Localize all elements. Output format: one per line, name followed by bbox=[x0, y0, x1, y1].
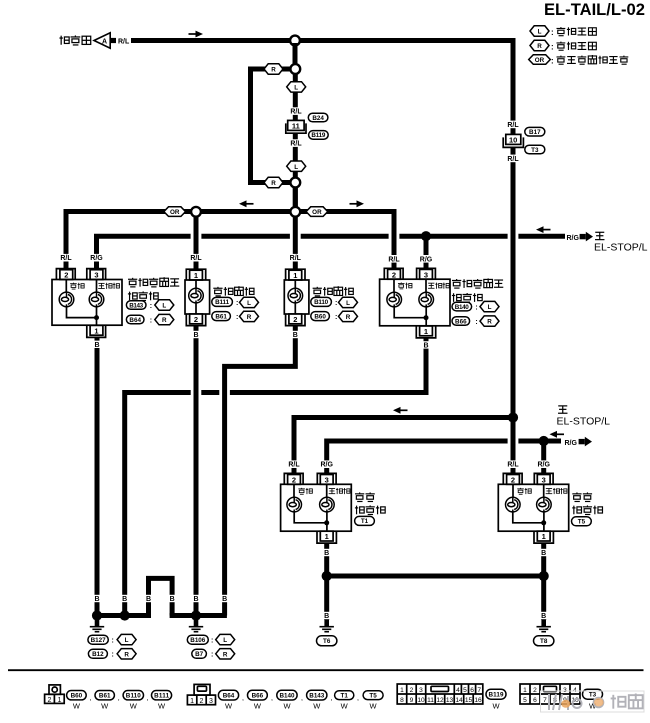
wire comp2 ground lead B bbox=[194, 326, 199, 616]
right trunk continuation below connector 10 bbox=[511, 147, 516, 417]
svg-text:B: B bbox=[193, 332, 198, 339]
svg-text:L: L bbox=[538, 29, 542, 36]
svg-text:B111: B111 bbox=[215, 299, 229, 306]
svg-text::: : bbox=[211, 638, 213, 645]
svg-text:15: 15 bbox=[465, 697, 473, 704]
connector label B110 bbox=[311, 297, 332, 306]
svg-text:T1: T1 bbox=[341, 692, 349, 699]
svg-text:L: L bbox=[346, 300, 350, 307]
connector label B143 bbox=[126, 301, 146, 310]
svg-text:B127: B127 bbox=[91, 637, 106, 644]
svg-text:10: 10 bbox=[509, 135, 517, 144]
label R/L comp4 pin2 riser bbox=[387, 255, 402, 263]
svg-text:2: 2 bbox=[410, 687, 414, 694]
label R/G comp1 pin3 riser bbox=[89, 254, 104, 262]
label R/G comp4 pin3 riser bbox=[419, 255, 434, 263]
stop bulb bbox=[89, 292, 104, 307]
svg-text:B143: B143 bbox=[309, 692, 324, 699]
svg-text:B60: B60 bbox=[71, 692, 83, 699]
internal junction dot bbox=[324, 520, 329, 525]
svg-text:B: B bbox=[541, 550, 546, 557]
connector label T1 bbox=[335, 691, 354, 700]
svg-text:B106: B106 bbox=[190, 637, 205, 644]
wire bus B (R/G stop feed) with gaps at crossings bbox=[97, 236, 566, 268]
label tail lamp bbox=[298, 488, 312, 494]
svg-text:B17: B17 bbox=[529, 129, 541, 136]
svg-text::: : bbox=[112, 652, 114, 659]
label B comp1 wire bbox=[92, 595, 103, 602]
flow arrow left on bus B exit bbox=[536, 226, 551, 233]
svg-text:L: L bbox=[223, 637, 227, 644]
text to EL-STOP/L bbox=[557, 406, 611, 428]
svg-text:2: 2 bbox=[48, 697, 52, 704]
internal wire bulbs to pin1 bbox=[513, 512, 544, 531]
svg-text:R/L: R/L bbox=[290, 141, 302, 148]
stop bulb bbox=[419, 292, 434, 307]
label R/L left rear riser bbox=[287, 460, 302, 468]
svg-text:2: 2 bbox=[64, 271, 68, 280]
internal lead pin3 to stop bulb bbox=[96, 280, 98, 293]
connector label T5 bbox=[363, 691, 383, 700]
svg-text:B111: B111 bbox=[154, 692, 169, 699]
svg-text:T5: T5 bbox=[369, 692, 377, 699]
svg-text:3: 3 bbox=[209, 698, 213, 705]
label stop lamp bbox=[329, 488, 350, 494]
svg-text:2: 2 bbox=[200, 698, 204, 705]
wire right rear ground lead B to T8 bbox=[541, 543, 546, 620]
svg-text:R: R bbox=[487, 319, 492, 326]
option hexagon L bbox=[216, 634, 235, 644]
off-page arrow to EL-STOP/L bbox=[579, 437, 592, 447]
svg-text:R/L: R/L bbox=[190, 255, 202, 262]
label B comp3 wire bbox=[219, 595, 230, 602]
svg-text:3: 3 bbox=[419, 687, 423, 694]
option hexagon L lower bbox=[287, 161, 306, 171]
wire drop from bypass to right license lamp bbox=[293, 187, 298, 269]
internal lead pin2 to tail bulb bbox=[293, 484, 295, 497]
component left luggage lid combination lamp bbox=[52, 269, 122, 338]
connector face icon round 2-pin bbox=[45, 685, 65, 704]
svg-text::: : bbox=[112, 638, 114, 645]
svg-text:,: , bbox=[90, 695, 92, 702]
svg-text::: : bbox=[150, 318, 152, 325]
internal lead bulb to pin2 bbox=[294, 303, 296, 314]
pin 2 bracket bbox=[284, 473, 303, 484]
option hexagon L bbox=[240, 297, 259, 307]
label R/L below connector 10 bbox=[506, 155, 521, 163]
svg-text:B: B bbox=[146, 596, 151, 603]
option hexagon OR left bbox=[164, 207, 186, 217]
internal lead pin3 to stop bulb bbox=[425, 279, 427, 292]
wire drop dot to right luggage lamp pin3 bbox=[424, 236, 429, 272]
svg-text:3: 3 bbox=[325, 475, 329, 484]
node above bypass bbox=[290, 64, 300, 74]
svg-text:B: B bbox=[94, 596, 99, 603]
svg-text:1: 1 bbox=[194, 271, 198, 280]
junction dot R/G to right rear pin3 bbox=[539, 436, 549, 446]
ground bus right segment bbox=[170, 613, 227, 618]
svg-text:B110: B110 bbox=[314, 299, 328, 306]
connector label T3 bbox=[583, 689, 603, 699]
node on top wire bbox=[290, 36, 300, 46]
svg-text:,: , bbox=[357, 695, 359, 702]
internal lead pin3 to stop bulb bbox=[326, 484, 328, 497]
connector label B140 bbox=[277, 690, 297, 700]
svg-text::: : bbox=[551, 57, 554, 66]
internal wire bulbs to pin1 bbox=[67, 307, 97, 326]
component name left rear bbox=[355, 492, 375, 501]
svg-text:R: R bbox=[247, 314, 252, 321]
svg-text:,: , bbox=[271, 695, 273, 702]
connector label B12 bbox=[88, 649, 107, 658]
svg-text:T6: T6 bbox=[323, 638, 331, 645]
svg-text:7: 7 bbox=[543, 697, 547, 704]
svg-text:B12: B12 bbox=[92, 651, 104, 658]
svg-text:B: B bbox=[293, 332, 298, 339]
svg-text:1: 1 bbox=[325, 532, 329, 541]
connector label B61 bbox=[95, 691, 114, 700]
svg-text:9: 9 bbox=[410, 697, 414, 704]
svg-text:1: 1 bbox=[542, 532, 546, 541]
option hexagon OR right bbox=[306, 207, 328, 217]
pin 2 bracket bbox=[286, 314, 305, 326]
svg-text:B7: B7 bbox=[195, 651, 204, 658]
label tail lamp bbox=[398, 282, 412, 288]
component name right rear bbox=[572, 492, 592, 501]
svg-text:B: B bbox=[423, 343, 428, 350]
internal lead to bulb bbox=[294, 280, 296, 288]
pin 1 box bbox=[537, 531, 550, 541]
option hexagon R bbox=[480, 316, 499, 326]
wire dot to right rear lamp pin3 bbox=[541, 441, 546, 475]
svg-text:W: W bbox=[254, 702, 262, 711]
svg-text:R/G: R/G bbox=[90, 255, 103, 262]
pin 1 bracket bbox=[416, 326, 435, 338]
svg-text:3: 3 bbox=[542, 475, 546, 484]
node license lamp left bbox=[191, 207, 201, 217]
svg-text:T1: T1 bbox=[361, 518, 369, 525]
label B above T6 ground bbox=[321, 612, 332, 619]
svg-text:13: 13 bbox=[446, 697, 454, 704]
pin 1 bracket bbox=[317, 531, 336, 543]
svg-text:R/G: R/G bbox=[567, 235, 580, 242]
trunk continues to right rear lamp pin2 bbox=[511, 418, 516, 476]
svg-text:EL-TAIL/L-02: EL-TAIL/L-02 bbox=[544, 1, 645, 19]
svg-text:L: L bbox=[294, 164, 298, 171]
connector label T1 bbox=[355, 516, 375, 525]
option hexagon R upper bbox=[264, 64, 283, 74]
ground T8 bbox=[537, 620, 551, 632]
svg-text::: : bbox=[475, 305, 477, 312]
svg-text:3: 3 bbox=[563, 687, 567, 694]
wire comp1 ground lead B bbox=[95, 337, 100, 615]
svg-text:1: 1 bbox=[190, 698, 194, 705]
option hexagon L bbox=[339, 297, 358, 307]
svg-text:B64: B64 bbox=[129, 317, 141, 324]
pin 2 bracket bbox=[56, 269, 75, 280]
svg-text:W: W bbox=[73, 701, 81, 710]
label R/L above connector 11 bbox=[289, 107, 304, 115]
junction dot comp2 ground bbox=[191, 610, 201, 620]
svg-text:W: W bbox=[492, 702, 500, 711]
pin 3 bracket bbox=[417, 268, 436, 279]
svg-text:,: , bbox=[331, 695, 333, 702]
svg-text:B140: B140 bbox=[455, 304, 469, 311]
svg-text:R/L: R/L bbox=[507, 462, 519, 469]
connector label B106 bbox=[187, 635, 208, 644]
wire R/G rear stop feed bbox=[327, 441, 561, 475]
wire main R/L feed: top horizontal + right trunk to connector 10 bbox=[131, 41, 513, 135]
wire R bypass branch (left loop) bbox=[251, 69, 292, 183]
label B bridge left leg bbox=[143, 595, 154, 602]
svg-text:16: 16 bbox=[474, 697, 482, 704]
connector label B61 bbox=[212, 312, 231, 321]
option hexagon L bbox=[480, 301, 499, 311]
svg-text:6: 6 bbox=[470, 687, 474, 694]
tail bulb bbox=[387, 292, 402, 307]
svg-text:,: , bbox=[146, 695, 148, 702]
stop bulb bbox=[537, 497, 552, 512]
option hexagon R bbox=[339, 311, 358, 321]
svg-text:R: R bbox=[162, 317, 167, 324]
junction dot ground link right bbox=[539, 571, 549, 581]
svg-text:4: 4 bbox=[456, 687, 460, 694]
internal lead pin2 to tail bulb bbox=[512, 484, 514, 497]
svg-text:B61: B61 bbox=[215, 313, 227, 320]
svg-text::: : bbox=[551, 28, 554, 37]
component name left license lamp bbox=[213, 286, 254, 296]
svg-text:EL-STOP/L: EL-STOP/L bbox=[594, 241, 648, 253]
component right luggage lid combination lamp bbox=[380, 268, 450, 338]
svg-text:B119: B119 bbox=[489, 691, 504, 698]
svg-text:B: B bbox=[324, 613, 329, 620]
option hexagon L bbox=[155, 300, 174, 310]
ground T6 bbox=[320, 620, 334, 632]
wire comp4 ground lead B with long jog left (gaps at crossings) bbox=[125, 338, 426, 616]
svg-text:R/G: R/G bbox=[420, 256, 433, 263]
svg-text:OR: OR bbox=[312, 209, 322, 216]
flow arrow left on R/G exit bbox=[550, 431, 565, 438]
internal wire bulbs to pin1 bbox=[294, 512, 327, 531]
junction dot comp4 ground bbox=[120, 610, 130, 620]
connector label B119 bbox=[486, 689, 506, 699]
pin 1 box bbox=[420, 326, 433, 336]
internal junction dot bbox=[94, 315, 99, 320]
pin 1 box bbox=[90, 325, 103, 335]
wire main branch through connector 11 bbox=[293, 73, 298, 207]
svg-text:2: 2 bbox=[533, 687, 537, 694]
pin 3 bracket bbox=[534, 473, 553, 484]
component name right luggage lid bbox=[452, 278, 503, 288]
wire drop node1 to left license lamp bbox=[194, 214, 199, 269]
tail bulb bbox=[506, 497, 521, 512]
legend option OR = without rear fog lamp switch bbox=[529, 55, 551, 65]
svg-text:OR: OR bbox=[170, 209, 180, 216]
svg-text:,: , bbox=[242, 695, 244, 702]
option hexagon R lower bbox=[264, 177, 283, 187]
label stop lamp bbox=[428, 283, 449, 289]
connector grid 10-pin T3 bbox=[520, 684, 580, 704]
legend option L = LHD bbox=[530, 26, 549, 36]
svg-text:1: 1 bbox=[293, 271, 297, 280]
svg-text:EL-STOP/L: EL-STOP/L bbox=[557, 416, 611, 428]
option hexagon R bbox=[240, 311, 259, 321]
ground bus bridge jumper bbox=[149, 578, 173, 615]
label B comp2 wire bbox=[191, 595, 202, 602]
pin 2 bracket bbox=[186, 314, 205, 326]
label R/L on right trunk above connector 10 bbox=[506, 121, 521, 129]
pin 1 box bbox=[320, 531, 333, 541]
svg-text:B64: B64 bbox=[223, 692, 235, 699]
connector label B7 bbox=[192, 649, 207, 658]
connector label B66 bbox=[452, 317, 470, 326]
svg-text:OR: OR bbox=[535, 57, 545, 64]
svg-text:2: 2 bbox=[194, 315, 198, 324]
svg-text:R: R bbox=[537, 43, 542, 50]
component box bbox=[185, 280, 210, 314]
svg-text:T5: T5 bbox=[578, 519, 586, 526]
connector label T3 bbox=[525, 145, 545, 154]
component name right license lamp bbox=[313, 286, 354, 296]
component box bbox=[380, 279, 450, 326]
wire comp3 ground lead B with jog left bbox=[225, 326, 296, 616]
connector label B111 bbox=[152, 691, 172, 700]
svg-text::: : bbox=[551, 43, 554, 52]
node below bypass bbox=[290, 178, 300, 188]
svg-text:,: , bbox=[301, 695, 303, 702]
svg-text:W: W bbox=[313, 702, 321, 711]
svg-text:7: 7 bbox=[477, 687, 481, 694]
flow arrow on top wire bbox=[189, 31, 204, 38]
connector label B60 bbox=[311, 312, 330, 321]
svg-text:R: R bbox=[346, 314, 351, 321]
label R/G left rear riser bbox=[319, 460, 334, 468]
svg-text:R: R bbox=[271, 180, 276, 187]
off-page arrow to EL-STOP/L bbox=[580, 232, 593, 242]
svg-text::: : bbox=[211, 652, 213, 659]
label stop lamp bbox=[546, 488, 567, 494]
connector label T5 bbox=[572, 517, 592, 526]
svg-text:R/G: R/G bbox=[320, 462, 333, 469]
pin 1 bracket bbox=[534, 531, 553, 543]
svg-text:W: W bbox=[370, 702, 378, 711]
pin 2 box bbox=[289, 314, 302, 324]
svg-text:B: B bbox=[193, 596, 198, 603]
node license lamp right bbox=[290, 207, 300, 217]
svg-text:R/L: R/L bbox=[288, 462, 300, 469]
svg-text:R/L: R/L bbox=[60, 255, 72, 262]
connector label B143 bbox=[307, 690, 327, 700]
svg-text:11: 11 bbox=[427, 697, 434, 704]
svg-text:R/G: R/G bbox=[565, 440, 578, 447]
svg-text:,: , bbox=[118, 695, 120, 702]
tail bulb bbox=[287, 497, 302, 512]
internal wire bulbs to pin1 bbox=[394, 307, 426, 326]
svg-text:B: B bbox=[122, 596, 127, 603]
svg-text:B24: B24 bbox=[312, 115, 324, 122]
svg-text:14: 14 bbox=[455, 697, 463, 704]
svg-text:1: 1 bbox=[523, 687, 527, 694]
separator line bbox=[8, 669, 644, 671]
watermark box bbox=[541, 691, 645, 712]
bulb bbox=[288, 288, 303, 303]
svg-text:R/L: R/L bbox=[507, 122, 519, 129]
svg-text:T3: T3 bbox=[589, 691, 597, 698]
flow arrow left on bus A bbox=[239, 200, 254, 207]
connector label B140 bbox=[452, 302, 472, 311]
label R/L below connector 11 bbox=[289, 139, 304, 147]
pin 1 bracket bbox=[286, 269, 305, 280]
svg-text:B: B bbox=[541, 613, 546, 620]
connector face icon 3-pin bbox=[187, 684, 215, 704]
connector grid 16-pin B119 bbox=[397, 684, 483, 704]
svg-text:W: W bbox=[101, 701, 109, 710]
component left rear combination lamp bbox=[281, 473, 352, 543]
svg-text:8: 8 bbox=[400, 697, 404, 704]
internal junction dot bbox=[424, 315, 429, 320]
svg-text:B60: B60 bbox=[314, 313, 326, 320]
svg-text:W: W bbox=[283, 702, 291, 711]
label R/L right rear riser bbox=[506, 460, 521, 468]
option hexagon R bbox=[117, 649, 136, 659]
junction dot trunk to rear lamps bbox=[508, 412, 518, 422]
ground bus left segment bbox=[95, 613, 151, 618]
svg-text:5: 5 bbox=[523, 697, 527, 704]
junction dot ground link left bbox=[322, 571, 332, 581]
svg-text:11: 11 bbox=[292, 121, 300, 130]
option hexagon L bbox=[117, 634, 136, 644]
svg-text:W: W bbox=[225, 702, 233, 711]
off-page reference A (from previous page) bbox=[59, 33, 130, 48]
component box bbox=[52, 280, 122, 326]
connector label B111 bbox=[212, 297, 233, 306]
wire branch down from node to node below bbox=[293, 43, 298, 65]
internal junction dot bbox=[541, 520, 546, 525]
svg-text:B: B bbox=[324, 550, 329, 557]
flow arrow left on rear feed bbox=[393, 407, 408, 414]
svg-text:B: B bbox=[222, 596, 227, 603]
svg-text:W: W bbox=[158, 701, 166, 710]
svg-text:R/L: R/L bbox=[290, 109, 302, 116]
svg-text:L: L bbox=[125, 637, 129, 644]
watermark glyphs bbox=[549, 694, 603, 710]
internal lead pin2 to tail bulb bbox=[65, 280, 67, 293]
wire left rear ground lead B to T6 bbox=[324, 543, 329, 620]
stop bulb bbox=[320, 497, 335, 512]
pin 3 bracket bbox=[317, 473, 336, 484]
internal lead pin3 to stop bulb bbox=[543, 484, 545, 497]
label R/L comp2 riser bbox=[189, 254, 204, 262]
component right license plate lamp bbox=[284, 269, 309, 325]
svg-text:R: R bbox=[124, 651, 129, 658]
svg-text:4: 4 bbox=[573, 687, 577, 694]
svg-text:L: L bbox=[247, 300, 251, 307]
pin 2 box bbox=[190, 314, 203, 324]
svg-text::: : bbox=[236, 300, 238, 307]
connector label B119 bbox=[309, 131, 329, 140]
pin 1 bracket bbox=[186, 269, 205, 280]
text to EL-STOP/L bbox=[594, 232, 648, 253]
svg-text::: : bbox=[236, 314, 238, 321]
ground B127/B12 bbox=[90, 620, 104, 632]
svg-text:B61: B61 bbox=[99, 692, 111, 699]
svg-text:1: 1 bbox=[57, 697, 61, 704]
label B comp4 wire bbox=[119, 595, 130, 602]
svg-text:L: L bbox=[162, 303, 166, 310]
internal lead bulb to pin2 bbox=[195, 303, 197, 314]
svg-text:T8: T8 bbox=[540, 638, 548, 645]
component box bbox=[498, 484, 568, 531]
